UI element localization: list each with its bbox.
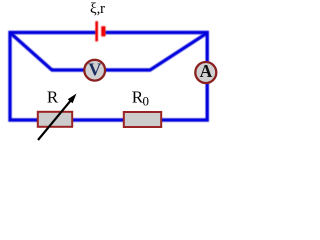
battery E1 short plate (negative): [101, 26, 105, 36]
svg-text:A: A: [200, 61, 213, 81]
resistor R wiper arrow: [38, 94, 77, 141]
voltmeter U1 circle: [84, 60, 105, 81]
wire: outer loop (left vertical, top-left segment, bottom, right vertical, top-right segment): [10, 33, 207, 121]
svg-text:ξ,: ξ,: [90, 1, 100, 17]
wire: voltmeter branch (diagonal from top-left corner, horizontal at y=70, diagonal to top-right corner): [11, 33, 207, 70]
ammeter U2 circle: [195, 62, 216, 83]
svg-text:0: 0: [143, 94, 150, 109]
resistor R (variable) body: [38, 112, 72, 127]
resistor R0 body: [124, 112, 161, 127]
svg-text:R: R: [47, 88, 59, 107]
battery E1 long plate (positive): [95, 21, 98, 41]
svg-text:r: r: [100, 1, 105, 17]
svg-text:V: V: [88, 60, 101, 80]
